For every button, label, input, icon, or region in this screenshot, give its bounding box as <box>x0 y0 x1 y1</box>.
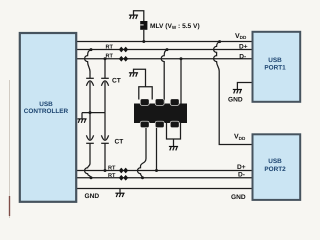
svg-text:RT: RT <box>108 173 116 179</box>
wire D- branch to IC pin3 <box>180 59 182 104</box>
wire VDD rail <box>77 41 252 43</box>
ground port1 <box>233 90 242 94</box>
node D+ to pin2 <box>166 48 169 51</box>
wire cap B lower to D+ bottom <box>104 143 106 170</box>
wire IC top staple pin1 <box>139 87 152 100</box>
wire cap A lower to D- bottom with hop over D+ <box>85 143 91 178</box>
svg-text:USB: USB <box>39 101 53 108</box>
svg-text:GND: GND <box>85 193 100 200</box>
page edge artifact line <box>9 80 11 218</box>
svg-text:PORT1: PORT1 <box>264 65 286 72</box>
pin bumps top <box>140 99 149 106</box>
resistor RT top D+ <box>119 47 128 52</box>
svg-text:PORT2: PORT2 <box>264 166 286 173</box>
ground bottom bus <box>115 193 124 197</box>
node D-b pin1 <box>141 176 144 179</box>
wire MLV lead to VDD rail <box>143 30 145 42</box>
node D- to pin3 <box>180 57 183 60</box>
node D+b capB2 <box>104 169 107 172</box>
wire D+ top <box>77 49 252 51</box>
svg-text:RT: RT <box>106 54 114 60</box>
wire D+ bottom <box>77 170 252 172</box>
svg-text:D-: D- <box>239 53 246 60</box>
node gnd bus capA <box>89 111 92 114</box>
node D- capB <box>104 57 107 60</box>
node VDD/MLV junction <box>142 40 145 43</box>
wire VDD branch to port2 with hops <box>214 42 252 145</box>
node D+b pin2 <box>155 169 158 172</box>
capacitor CT B lower plate <box>101 142 109 144</box>
svg-text:CONTROLLER: CONTROLLER <box>24 108 69 115</box>
wire IC bottom pin2 to D+ bottom <box>156 123 158 171</box>
pin bumps bottom <box>140 121 149 128</box>
wire D- bottom <box>77 177 252 179</box>
svg-text:GND: GND <box>231 194 246 201</box>
wire bottom GND stub <box>119 189 121 193</box>
svg-text:D-: D- <box>238 172 245 179</box>
wire cap B upper: D- to cap <box>104 59 106 79</box>
ground mid left bus <box>77 119 86 123</box>
capacitor CT B upper plate <box>101 77 109 79</box>
wire mid ground bus <box>82 112 105 114</box>
wire cap A to gnd bus <box>89 82 91 113</box>
wire IC bottom pin1 to D- bottom with hop over D+ <box>138 123 147 178</box>
capacitor CT A upper arc <box>86 81 93 86</box>
ground MLV top <box>129 15 138 19</box>
IC U1 common-mode filter array body <box>134 99 187 128</box>
svg-text:D+: D+ <box>239 44 248 51</box>
MLV varistor body <box>140 21 147 30</box>
capacitor CT A upper plate <box>86 77 94 79</box>
node D-b capA2 <box>90 176 93 179</box>
svg-text:MLV (VW : 5.5 V): MLV (VW : 5.5 V) <box>150 23 200 30</box>
capacitor CT B lower arc <box>101 135 108 140</box>
capacitor CT A lower plate <box>86 142 94 144</box>
wire cap B lower from bus <box>104 113 106 140</box>
wire staple stub to ground <box>173 139 175 146</box>
USB port2 box <box>253 134 301 200</box>
svg-text:GND: GND <box>228 96 243 103</box>
svg-text:RT: RT <box>108 165 116 171</box>
wire cap B to gnd bus <box>104 82 106 113</box>
node VDD port2 branch <box>218 40 221 43</box>
svg-text:USB: USB <box>268 158 282 165</box>
wire GND bus bottom <box>77 188 252 190</box>
svg-text:CT: CT <box>112 78 121 85</box>
resistor RT bottom D- <box>119 175 128 180</box>
svg-text:RT: RT <box>106 45 114 51</box>
wire IC bottom staple pin3 <box>167 123 181 139</box>
resistor RT bottom D+ <box>119 168 128 173</box>
wire port1 GND <box>237 83 252 90</box>
wire D+ branch to IC pin2 with hop over D- <box>161 50 167 104</box>
wire MLV elbow to ground <box>134 11 144 21</box>
svg-text:D+: D+ <box>237 164 246 171</box>
svg-text:USB: USB <box>268 57 282 64</box>
wire cap A upper: D+ to cap <box>85 50 91 79</box>
junction dots <box>89 40 222 179</box>
wire cap A lower from bus <box>89 113 91 140</box>
USB port1 box <box>253 32 301 102</box>
wire mid ground stub <box>81 113 83 119</box>
resistor RT top D- <box>119 56 128 61</box>
node D+ capA <box>90 48 93 51</box>
wire D- top <box>77 58 252 60</box>
capacitor CT B upper arc <box>101 81 108 86</box>
ground IC pin1 local <box>129 73 138 77</box>
ground below IC pin3 <box>169 147 178 151</box>
USB controller box <box>20 33 76 202</box>
wire IC pin1 elbow to local ground <box>134 69 146 86</box>
capacitor CT A lower arc <box>86 135 93 140</box>
svg-text:CT: CT <box>115 139 124 146</box>
